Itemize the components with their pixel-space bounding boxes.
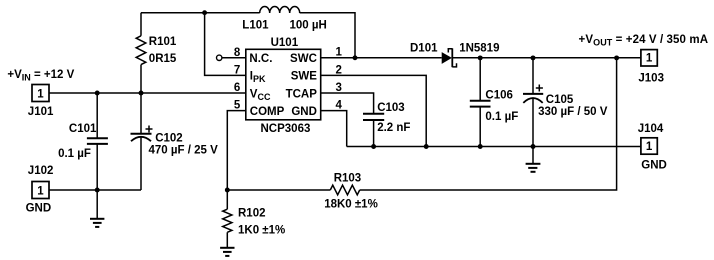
- svg-text:R101: R101: [149, 36, 177, 48]
- svg-text:N.C.: N.C.: [249, 53, 272, 65]
- svg-text:C103: C103: [377, 102, 405, 114]
- svg-text:3: 3: [336, 82, 342, 94]
- svg-text:0.1 µF: 0.1 µF: [485, 111, 518, 123]
- svg-text:R103: R103: [334, 173, 362, 185]
- svg-text:SWE: SWE: [291, 71, 318, 83]
- svg-text:330 µF / 50 V: 330 µF / 50 V: [538, 106, 608, 118]
- svg-text:0R15: 0R15: [149, 53, 177, 65]
- svg-text:6: 6: [234, 82, 240, 94]
- svg-text:18K0 ±1%: 18K0 ±1%: [324, 199, 378, 211]
- svg-text:TCAP: TCAP: [286, 88, 318, 100]
- svg-text:C105: C105: [546, 94, 574, 106]
- svg-text:100 µH: 100 µH: [290, 20, 327, 32]
- svg-text:COMP: COMP: [250, 106, 285, 118]
- svg-text:+VOUT = +24 V / 350 mA: +VOUT = +24 V / 350 mA: [579, 34, 709, 48]
- svg-text:1: 1: [646, 53, 653, 65]
- svg-text:J103: J103: [638, 73, 664, 85]
- svg-text:7: 7: [234, 64, 240, 76]
- svg-text:2.2 nF: 2.2 nF: [377, 122, 410, 134]
- svg-text:1N5819: 1N5819: [459, 43, 499, 55]
- svg-text:1: 1: [37, 185, 44, 197]
- svg-text:L101: L101: [242, 20, 269, 32]
- svg-text:C106: C106: [485, 90, 513, 102]
- svg-text:8: 8: [234, 47, 241, 59]
- svg-text:C101: C101: [69, 123, 97, 135]
- svg-text:5: 5: [234, 100, 241, 112]
- svg-text:U101: U101: [271, 37, 299, 49]
- svg-text:470 µF / 25 V: 470 µF / 25 V: [149, 145, 219, 157]
- svg-text:J101: J101: [28, 106, 54, 118]
- svg-text:+VIN = +12 V: +VIN = +12 V: [7, 69, 74, 83]
- svg-text:4: 4: [336, 100, 343, 112]
- svg-text:GND: GND: [641, 160, 667, 172]
- svg-text:NCP3063: NCP3063: [261, 123, 311, 135]
- svg-text:J102: J102: [28, 165, 54, 177]
- svg-text:R102: R102: [238, 208, 266, 220]
- svg-text:GND: GND: [26, 203, 52, 215]
- svg-text:0.1 µF: 0.1 µF: [58, 148, 91, 160]
- svg-text:SWC: SWC: [290, 53, 317, 65]
- svg-text:J104: J104: [638, 123, 664, 135]
- svg-text:GND: GND: [291, 106, 317, 118]
- svg-text:VCC: VCC: [250, 88, 271, 102]
- svg-text:IPK: IPK: [250, 71, 266, 85]
- svg-text:1: 1: [646, 141, 653, 153]
- svg-text:1: 1: [336, 47, 343, 59]
- svg-text:1: 1: [37, 88, 44, 100]
- svg-text:2: 2: [336, 64, 342, 76]
- svg-text:D101: D101: [410, 43, 438, 55]
- svg-text:1K0 ±1%: 1K0 ±1%: [238, 225, 285, 237]
- svg-text:C102: C102: [155, 133, 183, 145]
